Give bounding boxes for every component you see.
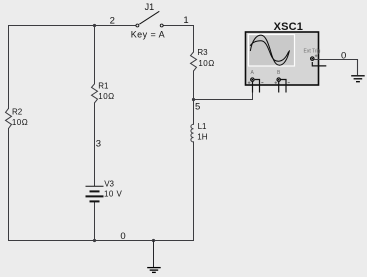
terminal B bbox=[277, 78, 280, 81]
plus minus marks channel B bbox=[275, 81, 290, 84]
terminal B plus lead bbox=[278, 81, 280, 93]
wire V3 to bottom bbox=[94, 202, 96, 241]
svg-text:Ext Trig: Ext Trig bbox=[304, 49, 321, 55]
svg-text:10Ω: 10Ω bbox=[198, 59, 214, 68]
svg-text:3: 3 bbox=[96, 138, 101, 149]
inductor L1 bbox=[191, 124, 194, 142]
wire middle branch top bbox=[94, 26, 96, 84]
svg-text:1: 1 bbox=[183, 15, 188, 26]
switch J1 bbox=[136, 11, 163, 27]
plus mark ext trig bbox=[315, 55, 318, 58]
svg-text:10Ω: 10Ω bbox=[12, 118, 28, 127]
svg-text:L1: L1 bbox=[198, 122, 207, 131]
battery V3 bbox=[86, 186, 104, 201]
svg-text:R2: R2 bbox=[12, 108, 23, 117]
wire scope A to node 5 bbox=[194, 81, 253, 100]
terminal A minus stub bbox=[255, 80, 260, 93]
plus minus marks channel A bbox=[248, 81, 264, 84]
junction node 2 bbox=[93, 24, 96, 27]
wire L1 to bottom bbox=[193, 142, 195, 241]
svg-text:1H: 1H bbox=[197, 132, 207, 141]
svg-text:XSC1: XSC1 bbox=[274, 21, 304, 33]
wire bottom (node 0) bbox=[9, 240, 194, 242]
terminal A bbox=[251, 78, 254, 81]
ground bottom bbox=[147, 241, 161, 273]
svg-text:V3: V3 bbox=[104, 179, 114, 188]
oscilloscope XSC1 body bbox=[246, 32, 319, 85]
wire top left (node 2) bbox=[9, 25, 136, 27]
resistor R3 bbox=[191, 52, 197, 71]
wire left branch bbox=[8, 26, 10, 109]
svg-text:10Ω: 10Ω bbox=[98, 92, 114, 101]
terminal Ext Trig bbox=[311, 57, 314, 60]
terminal A plus lead bbox=[252, 81, 254, 93]
scope trace wave 2 bbox=[250, 41, 289, 62]
svg-text:0: 0 bbox=[120, 231, 125, 242]
svg-text:J1: J1 bbox=[145, 2, 155, 12]
terminal Ext minus stub bbox=[312, 62, 326, 66]
wire R1 to V3 bbox=[94, 103, 96, 186]
junction middle bottom bbox=[93, 239, 96, 242]
wire R3 to L1 (node 5) bbox=[193, 71, 195, 124]
oscilloscope screen bbox=[249, 35, 295, 67]
resistor R1 bbox=[92, 84, 98, 103]
svg-text:R3: R3 bbox=[197, 48, 208, 57]
scope trace wave 1 bbox=[250, 35, 289, 65]
wire switch to right branch (node 1) bbox=[164, 26, 194, 53]
svg-text:2: 2 bbox=[110, 16, 115, 27]
resistor R2 bbox=[6, 108, 12, 128]
svg-text:Key = A: Key = A bbox=[131, 30, 165, 40]
junction ground bottom bbox=[152, 239, 155, 242]
ground right bbox=[351, 76, 365, 82]
svg-text:10 V: 10 V bbox=[104, 190, 122, 199]
wire ext trig to ground (node 0) bbox=[314, 60, 357, 76]
svg-text:R1: R1 bbox=[98, 81, 109, 90]
terminal B minus stub bbox=[281, 80, 286, 93]
svg-text:5: 5 bbox=[195, 102, 200, 113]
wire left branch lower bbox=[8, 129, 10, 241]
junction node 5 bbox=[192, 98, 195, 101]
